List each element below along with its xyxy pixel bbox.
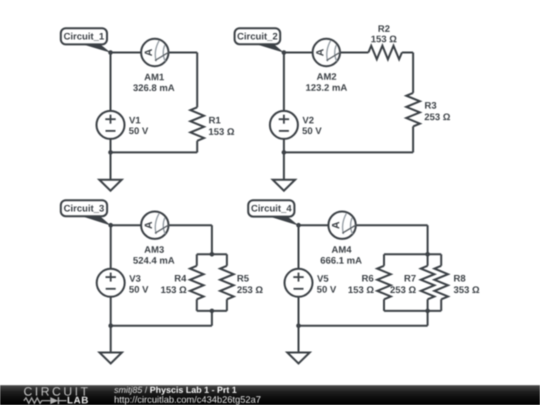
- label AM4: [332, 246, 352, 253]
- wire corner down to R3: [412, 53, 414, 93]
- wire node to AM3: [111, 224, 142, 226]
- label V2: [303, 117, 314, 124]
- CircuitLab logo wordmark: [24, 387, 88, 396]
- value R2 153 ohm: [371, 36, 396, 43]
- label R6: [362, 275, 373, 282]
- resistor R5: [220, 266, 234, 300]
- node label flag Circuit_4: [248, 200, 299, 225]
- footer bar: [0, 385, 540, 405]
- value R8 353 ohm: [454, 286, 480, 293]
- junction node Circuit_1: [108, 50, 113, 55]
- wire R6 bottom stub: [383, 299, 385, 311]
- label R5: [238, 275, 249, 282]
- node label flag Circuit_1: [61, 28, 111, 53]
- junction node Circuit_4: [296, 223, 301, 228]
- resistor R8: [434, 266, 448, 300]
- label R3: [425, 102, 436, 109]
- wire AM1 to corner: [168, 52, 197, 54]
- value V5 50 V: [317, 286, 336, 293]
- value AM3 524.4 mA: [133, 257, 174, 264]
- footer title line: [114, 387, 142, 395]
- wire node down to V1: [110, 53, 112, 111]
- resistor R4: [190, 266, 204, 300]
- voltage source V1: [97, 111, 125, 139]
- wire R7 bottom stub: [427, 299, 429, 311]
- wire V3 to ground: [110, 297, 112, 353]
- wire V2 to ground: [283, 139, 285, 180]
- node label flag Circuit_2: [235, 28, 285, 53]
- junction node Circuit_2: [282, 50, 287, 55]
- wire R6 top stub: [383, 254, 385, 265]
- label AM1: [144, 74, 164, 81]
- wire top rail left (node to AM1): [111, 52, 142, 54]
- label R7: [405, 275, 416, 282]
- wire corner down to parallel bank: [211, 225, 213, 254]
- voltage source V2: [270, 111, 298, 139]
- resistor R7: [421, 266, 435, 300]
- CircuitLab logo schematic: diode: [50, 397, 58, 404]
- wire R5 top stub: [226, 254, 228, 265]
- junction bottom of bank circuit 4: [425, 309, 430, 314]
- wire V5 to ground: [298, 297, 300, 353]
- value AM1 326.8 mA: [133, 84, 174, 91]
- wire V1 to ground: [110, 139, 112, 180]
- wire R7 top stub: [427, 254, 429, 265]
- label R4: [175, 275, 186, 282]
- resistor R3: [406, 93, 420, 127]
- wire top bar R6 R7 R8: [384, 253, 441, 255]
- junction bottom circuit 2: [282, 150, 287, 155]
- CircuitLab logo LAB text: [68, 397, 88, 404]
- wire AM4 to corner: [356, 224, 428, 226]
- label V3: [129, 275, 140, 282]
- wire bank to bottom rail: [211, 311, 213, 326]
- label R2: [379, 25, 390, 32]
- ammeter AM2: [313, 39, 341, 66]
- wire bottom bar R4 R5: [197, 310, 227, 312]
- wire R4 bottom stub: [196, 299, 198, 311]
- label AM3: [144, 246, 164, 253]
- CircuitLab logo schematic: resistor: [24, 398, 51, 403]
- wire AM3 to corner: [168, 224, 212, 226]
- junction top of bank circuit 3: [210, 252, 215, 257]
- voltage source V5: [285, 269, 313, 297]
- value AM4 666.1 mA: [321, 257, 362, 264]
- junction top of bank circuit 4: [425, 252, 430, 257]
- value V3 50 V: [129, 286, 148, 293]
- junction node Circuit_3: [108, 223, 113, 228]
- label V5: [317, 275, 328, 282]
- wire R1 to bottom rail: [196, 141, 198, 153]
- wire node down to V5: [298, 225, 300, 269]
- wire R4 top stub: [196, 254, 198, 265]
- ammeter AM1: [141, 39, 169, 66]
- value R4 153 ohm: [161, 286, 186, 293]
- wire node to AM4: [299, 224, 329, 226]
- wire R8 top stub: [440, 254, 442, 265]
- wire R8 bottom stub: [440, 299, 442, 311]
- junction bottom circuit 4: [296, 323, 301, 328]
- junction bottom circuit 3: [108, 323, 113, 328]
- wire R3 to bottom rail: [412, 126, 414, 152]
- value V2 50 V: [302, 127, 321, 134]
- junction bottom of bank circuit 3: [210, 309, 215, 314]
- resistor R2: [368, 46, 402, 60]
- wire AM2 to R2: [340, 52, 369, 54]
- value R3 253 ohm: [425, 114, 450, 121]
- wire bottom rail circuit 2: [284, 151, 413, 153]
- ammeter AM3: [141, 212, 169, 239]
- value R5 253 ohm: [237, 286, 262, 293]
- voltage source V3: [97, 269, 125, 297]
- label V1: [129, 117, 140, 124]
- label R1: [209, 117, 220, 124]
- value R1 153 ohm: [209, 128, 234, 135]
- wire bottom bar R6 R7 R8: [384, 310, 441, 312]
- wire corner down to parallel bank: [427, 225, 429, 254]
- value V1 50 V: [129, 127, 148, 134]
- wire R5 bottom stub: [226, 299, 228, 311]
- junction bottom circuit 1: [108, 150, 113, 155]
- wire bottom rail circuit 3: [111, 325, 212, 327]
- wire bottom rail circuit 1: [111, 151, 198, 153]
- wire node to AM2: [284, 52, 313, 54]
- wire top bar R4 R5: [197, 253, 227, 255]
- wire corner down to R1: [196, 53, 198, 108]
- label AM2: [317, 73, 336, 80]
- resistor R6: [377, 266, 391, 300]
- label R8: [454, 275, 465, 282]
- ammeter AM4: [328, 212, 356, 239]
- value AM2 123.2 mA: [306, 84, 347, 91]
- wire node down to V2: [283, 53, 285, 111]
- node label flag Circuit_3: [61, 200, 111, 225]
- ground circuit 2: [273, 180, 295, 191]
- value R7 253 ohm: [390, 286, 415, 293]
- ground circuit 4: [287, 353, 309, 364]
- resistor R1: [190, 107, 204, 141]
- value R6 153 ohm: [349, 286, 374, 293]
- wire bottom rail circuit 4: [299, 325, 428, 327]
- wire node down to V3: [110, 225, 112, 269]
- ground circuit 1: [99, 180, 121, 191]
- footer url line: [115, 396, 261, 405]
- wire R2 to corner: [402, 52, 413, 54]
- ground circuit 3: [100, 353, 122, 364]
- wire bank to bottom rail: [427, 311, 429, 326]
